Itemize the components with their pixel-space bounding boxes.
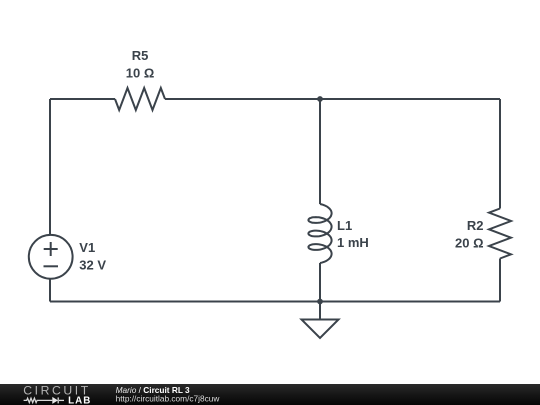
wire left rail upper bbox=[49, 99, 51, 235]
V1 minus sign bbox=[44, 265, 59, 267]
wire top rail right segment bbox=[165, 98, 500, 100]
wire middle branch lower bbox=[319, 263, 321, 302]
svg-text:R5: R5 bbox=[132, 48, 149, 63]
svg-text:R2: R2 bbox=[467, 218, 484, 233]
logo diode triangle bbox=[52, 397, 58, 404]
node junction top bbox=[317, 96, 323, 102]
wire right rail lower bbox=[499, 259, 501, 302]
svg-text:32 V: 32 V bbox=[79, 257, 106, 272]
inductor L1 bbox=[308, 204, 331, 263]
svg-text:L1: L1 bbox=[337, 218, 352, 233]
voltage source V1 circle bbox=[29, 235, 73, 279]
resistor R2 bbox=[489, 209, 511, 259]
wire right rail upper bbox=[499, 99, 501, 209]
svg-text:LAB: LAB bbox=[68, 395, 91, 405]
svg-text:http://circuitlab.com/c7j8cuw: http://circuitlab.com/c7j8cuw bbox=[116, 393, 221, 403]
ground stub wire bbox=[319, 302, 321, 320]
svg-text:1 mH: 1 mH bbox=[337, 235, 369, 250]
logo schematic: wire + resistor zigzag + diode bbox=[24, 397, 64, 403]
resistor R5 bbox=[115, 88, 165, 110]
svg-text:20 Ω: 20 Ω bbox=[455, 235, 484, 250]
wire top rail left segment bbox=[50, 98, 115, 100]
svg-text:10 Ω: 10 Ω bbox=[126, 65, 155, 80]
wire left rail lower bbox=[49, 279, 51, 302]
ground symbol bbox=[302, 320, 339, 339]
wire bottom rail bbox=[50, 301, 500, 303]
V1 plus sign bbox=[44, 242, 58, 256]
node junction bottom bbox=[317, 299, 323, 305]
svg-text:V1: V1 bbox=[79, 240, 95, 255]
wire middle branch upper bbox=[319, 99, 321, 204]
